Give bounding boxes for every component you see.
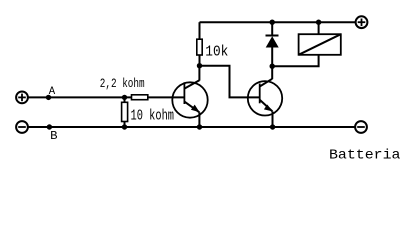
- junction dot relay top: [316, 20, 321, 25]
- junction dot R2 top: [122, 95, 127, 100]
- terminal + right: [356, 16, 368, 28]
- terminal - right: [355, 121, 367, 133]
- svg-text:10 kohm: 10 kohm: [131, 107, 175, 124]
- junction dot Q1 emitter rail: [197, 124, 202, 129]
- junction dot Q2 emitter rail: [270, 124, 275, 129]
- wire top rail: [200, 21, 356, 23]
- wire A line left: [28, 96, 131, 98]
- svg-text:10k: 10k: [205, 44, 228, 60]
- junction dot R3 bottom / Q1 collector: [197, 63, 202, 68]
- junction dot diode top: [270, 20, 275, 25]
- transistor Q2: [248, 66, 282, 127]
- svg-text:A: A: [49, 86, 56, 98]
- junction dot diode bottom: [270, 63, 275, 68]
- wire collector Q1 to base Q2: [200, 66, 260, 98]
- terminal + left: [16, 92, 28, 104]
- relay K1: [272, 22, 341, 66]
- wire bottom rail: [28, 126, 355, 128]
- svg-text:Batteria: Batteria: [329, 148, 401, 164]
- resistor R2 10 kohm: [122, 97, 128, 127]
- wire A line right of R1: [149, 96, 185, 98]
- svg-text:B: B: [50, 129, 57, 143]
- terminal - left: [16, 121, 28, 133]
- junction dot R2 bottom: [122, 124, 127, 129]
- resistor R1 2,2 kohm: [132, 95, 148, 100]
- node B dot: [47, 124, 52, 129]
- resistor R3 10k: [197, 22, 202, 65]
- diode D1: [266, 22, 279, 66]
- svg-text:2,2 kohm: 2,2 kohm: [100, 76, 145, 91]
- node A dot: [46, 95, 51, 100]
- transistor Q1: [172, 66, 207, 127]
